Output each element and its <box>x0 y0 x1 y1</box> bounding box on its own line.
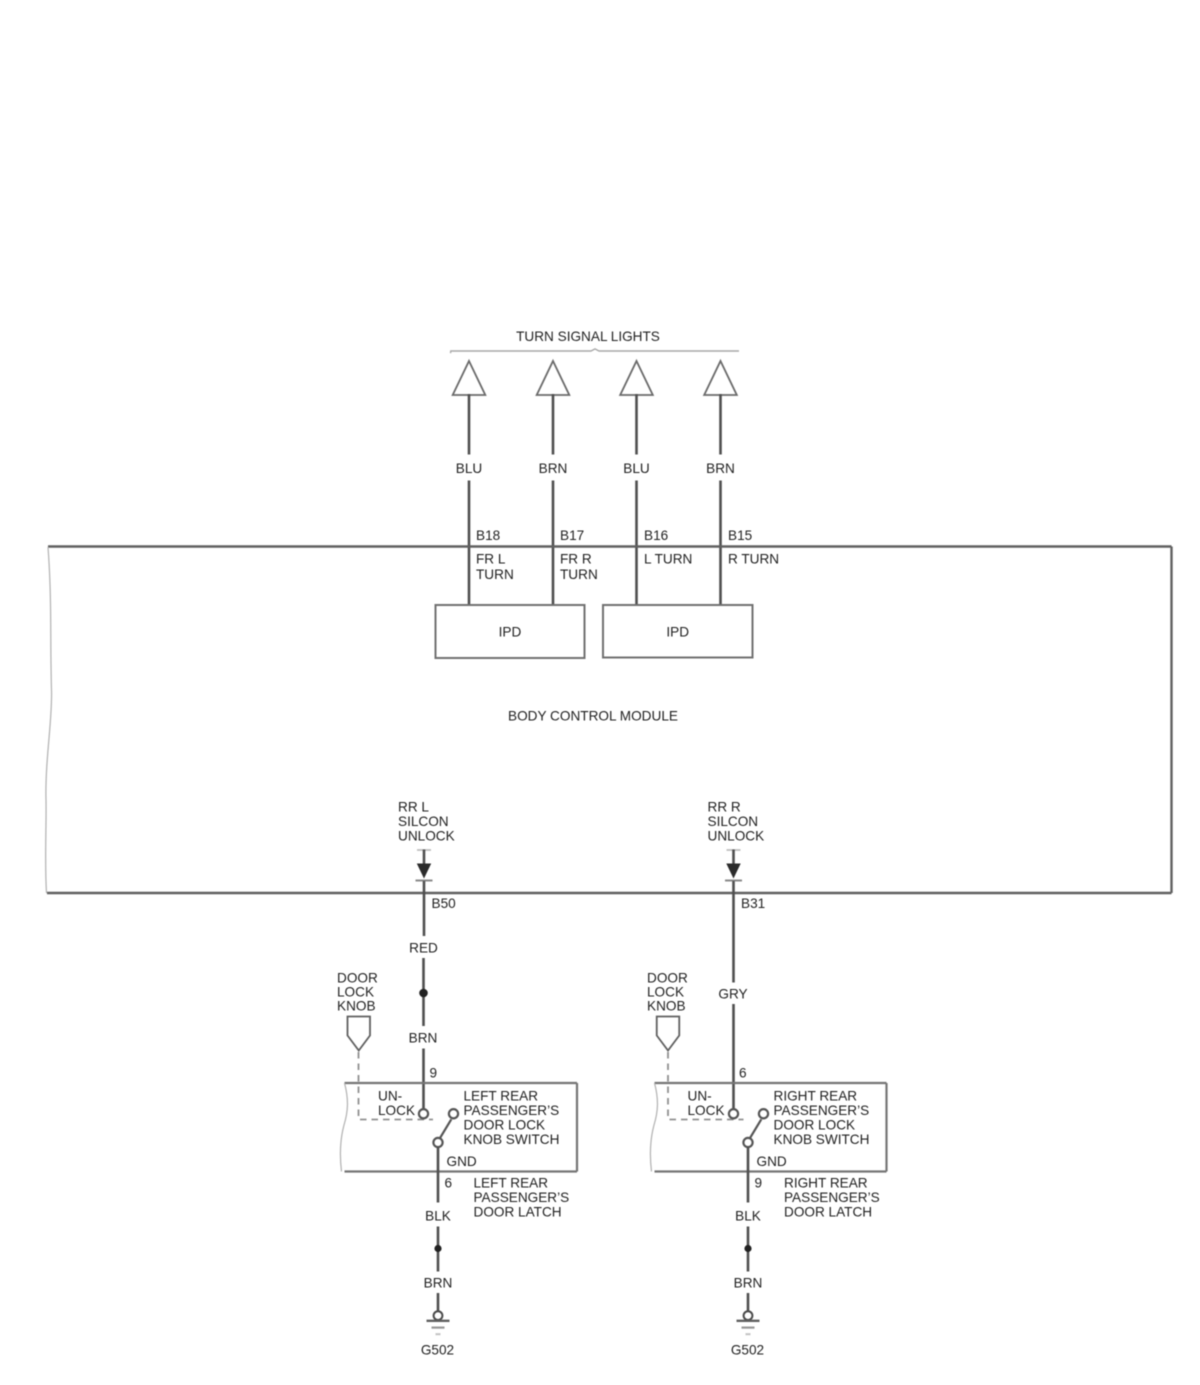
wire into BCM pin B15 <box>719 481 722 606</box>
dashed mechanical link right <box>668 1052 744 1120</box>
pin label B16 <box>644 528 668 543</box>
svg-text:GRY: GRY <box>718 987 747 1002</box>
net label R TURN <box>728 552 779 567</box>
IPD block 1 <box>436 605 585 658</box>
svg-text:DOOR LATCH: DOOR LATCH <box>474 1205 562 1220</box>
wire color label BRN right ground <box>734 1276 763 1291</box>
lamp L3 (turn signal light) <box>620 361 653 395</box>
svg-text:RR L: RR L <box>398 800 429 815</box>
svg-text:9: 9 <box>430 1066 438 1081</box>
svg-text:DOOR: DOOR <box>337 971 378 986</box>
splice junction dot <box>419 989 428 998</box>
label DOOR LOCK KNOB left <box>337 971 378 1014</box>
label BODY CONTROL MODULE <box>508 709 678 724</box>
wire color label BRN <box>539 461 568 476</box>
wire BLU from lamp L1 <box>468 394 471 455</box>
switch S1 terminals and blade (left) <box>419 1109 458 1147</box>
pin label B31 <box>741 896 765 911</box>
label GND left <box>447 1154 477 1169</box>
svg-text:PASSENGER’S: PASSENGER’S <box>774 1103 870 1118</box>
svg-text:KNOB: KNOB <box>337 999 376 1014</box>
svg-text:G502: G502 <box>421 1343 454 1358</box>
label UN-LOCK right <box>688 1089 725 1119</box>
svg-text:BRN: BRN <box>539 461 568 476</box>
svg-text:B18: B18 <box>476 528 500 543</box>
switch S2 terminals and blade (right) <box>729 1109 768 1147</box>
svg-text:KNOB SWITCH: KNOB SWITCH <box>774 1132 870 1147</box>
label RIGHT REAR PASSENGER'S DOOR LOCK KNOB SWITCH <box>774 1089 870 1148</box>
wire color label GRY <box>718 987 747 1002</box>
svg-text:BODY CONTROL MODULE: BODY CONTROL MODULE <box>508 709 678 724</box>
svg-text:DOOR: DOOR <box>647 971 688 986</box>
net label L TURN <box>644 552 692 567</box>
output driver arrow at pin B31 <box>725 850 742 881</box>
door lock knob symbol right <box>657 1017 680 1051</box>
svg-text:UNLOCK: UNLOCK <box>708 829 765 844</box>
svg-text:SILCON: SILCON <box>708 814 759 829</box>
svg-text:B50: B50 <box>432 896 457 911</box>
wire color label RED <box>409 941 438 956</box>
svg-text:LOCK: LOCK <box>647 985 684 1000</box>
svg-text:GND: GND <box>757 1154 787 1169</box>
svg-text:FR L: FR L <box>476 552 506 567</box>
label DOOR LOCK KNOB right <box>647 971 688 1014</box>
svg-text:TURN SIGNAL LIGHTS: TURN SIGNAL LIGHTS <box>516 329 660 344</box>
svg-text:LOCK: LOCK <box>337 985 374 1000</box>
pin label B18 <box>476 528 500 543</box>
svg-text:RED: RED <box>409 941 438 956</box>
svg-text:LEFT REAR: LEFT REAR <box>474 1176 549 1191</box>
svg-text:BLU: BLU <box>456 461 482 476</box>
svg-text:PASSENGER’S: PASSENGER’S <box>784 1190 880 1205</box>
output driver arrow at pin B50 <box>416 850 433 881</box>
right door lock knob switch box <box>650 1083 886 1172</box>
svg-text:BRN: BRN <box>424 1276 453 1291</box>
wire switch common to door latch right <box>747 1147 750 1202</box>
net label FR L TURN <box>476 552 514 583</box>
svg-text:DOOR LOCK: DOOR LOCK <box>774 1118 856 1133</box>
wire color label BLK left <box>425 1209 451 1224</box>
ground symbol G502 left <box>427 1311 450 1334</box>
svg-text:6: 6 <box>445 1176 453 1191</box>
net label RR R SILCON UNLOCK <box>708 800 765 844</box>
ground name G502 left <box>421 1343 454 1358</box>
ground symbol G502 right <box>737 1311 760 1334</box>
label LEFT REAR PASSENGER'S DOOR LATCH <box>474 1176 570 1220</box>
pin label B15 <box>728 528 752 543</box>
svg-text:BRN: BRN <box>734 1276 763 1291</box>
svg-text:BLK: BLK <box>735 1209 761 1224</box>
svg-text:B16: B16 <box>644 528 668 543</box>
wire BRN to switch pin 9 <box>422 1049 425 1110</box>
wire into ground G502 left <box>437 1293 440 1312</box>
label UN-LOCK left <box>378 1089 415 1119</box>
svg-text:BRN: BRN <box>409 1031 438 1046</box>
wire RED from B50 <box>423 881 426 936</box>
net label RR L SILCON UNLOCK <box>398 800 455 844</box>
wire into BCM pin B17 <box>552 481 555 606</box>
svg-text:LEFT REAR: LEFT REAR <box>464 1089 539 1104</box>
svg-text:G502: G502 <box>731 1343 764 1358</box>
svg-text:B17: B17 <box>560 528 584 543</box>
svg-text:LOCK: LOCK <box>378 1103 415 1118</box>
svg-text:9: 9 <box>755 1176 763 1191</box>
svg-text:UN-: UN- <box>378 1089 402 1104</box>
lamp L2 (turn signal light) <box>537 361 570 395</box>
svg-text:UNLOCK: UNLOCK <box>398 829 455 844</box>
svg-text:RR R: RR R <box>708 800 741 815</box>
wire BRN from lamp L2 <box>552 394 555 455</box>
door lock knob symbol left <box>348 1017 371 1051</box>
svg-text:GND: GND <box>447 1154 477 1169</box>
splice dot left ground wire <box>434 1245 441 1252</box>
wire color label BRN <box>706 461 735 476</box>
svg-text:6: 6 <box>739 1066 747 1081</box>
svg-text:PASSENGER’S: PASSENGER’S <box>474 1190 570 1205</box>
svg-text:IPD: IPD <box>666 625 689 640</box>
pin label B50 <box>432 896 457 911</box>
svg-text:B31: B31 <box>741 896 765 911</box>
ground name G502 right <box>731 1343 764 1358</box>
wire into ground G502 right <box>747 1293 750 1312</box>
label LEFT REAR PASSENGER'S DOOR LOCK KNOB SWITCH <box>464 1089 560 1148</box>
pin number 6 left latch <box>445 1176 453 1191</box>
svg-text:FR R: FR R <box>560 552 592 567</box>
svg-text:R TURN: R TURN <box>728 552 779 567</box>
wire GRY to switch pin 6 <box>732 1004 735 1109</box>
wire switch common to door latch left <box>437 1147 440 1202</box>
pin label B17 <box>560 528 584 543</box>
svg-text:UN-: UN- <box>688 1089 712 1104</box>
wire BRN from lamp L4 <box>719 394 722 455</box>
body control module box U1 <box>46 547 1172 894</box>
wire color label BRN <box>409 1031 438 1046</box>
svg-text:KNOB: KNOB <box>647 999 686 1014</box>
svg-text:LOCK: LOCK <box>688 1103 725 1118</box>
svg-text:PASSENGER’S: PASSENGER’S <box>464 1103 560 1118</box>
pin number 9 left switch <box>430 1066 438 1081</box>
pin number 9 right latch <box>755 1176 763 1191</box>
svg-text:RIGHT REAR: RIGHT REAR <box>774 1089 858 1104</box>
label GND right <box>757 1154 787 1169</box>
wire color label BLK right <box>735 1209 761 1224</box>
wire color label BRN left ground <box>424 1276 453 1291</box>
left door lock knob switch box <box>340 1083 577 1172</box>
svg-text:IPD: IPD <box>499 625 522 640</box>
net label FR R TURN <box>560 552 598 583</box>
wire RED-BRN splice segment <box>422 958 425 1026</box>
svg-text:BLK: BLK <box>425 1209 451 1224</box>
label RIGHT REAR PASSENGER'S DOOR LATCH <box>784 1176 880 1220</box>
wire into BCM pin B18 <box>468 481 471 606</box>
wire color label BLU <box>456 461 482 476</box>
wire BLU from lamp L3 <box>635 394 638 455</box>
wire BLK to ground left <box>437 1227 440 1272</box>
wire GRY from B31 <box>732 881 735 983</box>
label TURN SIGNAL LIGHTS <box>516 329 660 344</box>
wire into BCM pin B16 <box>635 481 638 606</box>
svg-text:TURN: TURN <box>476 567 514 582</box>
svg-text:RIGHT REAR: RIGHT REAR <box>784 1176 868 1191</box>
svg-text:SILCON: SILCON <box>398 814 449 829</box>
bracket under TURN SIGNAL LIGHTS <box>451 349 740 353</box>
svg-text:TURN: TURN <box>560 567 598 582</box>
svg-text:L TURN: L TURN <box>644 552 692 567</box>
splice dot right ground wire <box>744 1245 751 1252</box>
svg-text:B15: B15 <box>728 528 752 543</box>
svg-text:DOOR LOCK: DOOR LOCK <box>464 1118 546 1133</box>
dashed mechanical link left <box>359 1052 434 1120</box>
lamp L1 (turn signal light) <box>453 361 486 395</box>
svg-text:BLU: BLU <box>623 461 649 476</box>
svg-text:BRN: BRN <box>706 461 735 476</box>
svg-text:DOOR LATCH: DOOR LATCH <box>784 1205 872 1220</box>
IPD block 2 <box>603 605 753 658</box>
wire color label BLU <box>623 461 649 476</box>
wire BLK to ground right <box>747 1227 750 1272</box>
pin number 6 right switch <box>739 1066 747 1081</box>
lamp L4 (turn signal light) <box>704 361 737 395</box>
svg-text:KNOB SWITCH: KNOB SWITCH <box>464 1132 560 1147</box>
